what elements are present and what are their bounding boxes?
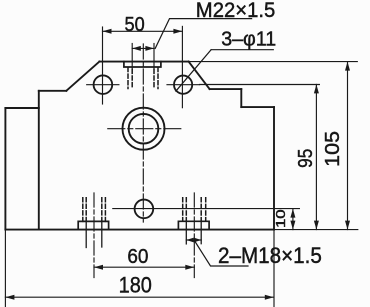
left hole vertical centerline / 50 extension xyxy=(102,27,104,104)
60 arrow right xyxy=(185,265,194,270)
right boss hidden line outer-left xyxy=(182,198,184,222)
95 dimension line xyxy=(315,84,317,229)
right chamfer xyxy=(189,62,210,90)
left M18 boss xyxy=(78,221,108,229)
bottom edge extension to dims xyxy=(274,229,358,231)
M22 thread hidden line left outer xyxy=(127,68,129,89)
left boss bore line left below xyxy=(85,221,87,247)
M18 dimension line xyxy=(186,239,201,241)
svg-text:10: 10 xyxy=(273,209,288,228)
left edge extension down to 180 dim xyxy=(4,230,6,307)
left hole horizontal centerline xyxy=(87,84,119,86)
50 dimension line xyxy=(103,30,183,32)
center bore outer circle xyxy=(123,108,165,150)
60 arrow left xyxy=(94,265,103,270)
svg-text:60: 60 xyxy=(127,245,148,268)
M22 leader line xyxy=(155,19,251,49)
right boss bore line left below xyxy=(185,221,187,244)
svg-text:50: 50 xyxy=(125,14,145,36)
body top edge xyxy=(99,61,188,63)
right boss hidden line inner-left xyxy=(185,198,187,222)
svg-text:105: 105 xyxy=(322,131,344,167)
50 arrow left xyxy=(103,29,112,34)
2-M18 leader line xyxy=(195,242,248,267)
left block left edge xyxy=(4,108,6,230)
10 arrow up xyxy=(290,209,295,218)
10 dimension line xyxy=(292,209,294,230)
left boss hidden line outer-right xyxy=(104,198,106,222)
body bottom edge xyxy=(5,229,273,231)
right hole phi11 xyxy=(174,76,192,94)
3-phi11 leader diagonal xyxy=(176,50,211,91)
left chamfer xyxy=(66,62,99,91)
M22 arrow left xyxy=(132,46,141,51)
svg-text:3–φ11: 3–φ11 xyxy=(221,27,276,50)
10 arrow down xyxy=(290,221,295,230)
left block top xyxy=(5,107,38,109)
M22 thread hidden line right inner xyxy=(153,69,155,88)
M18 arrow right xyxy=(194,238,201,243)
95 arrow down xyxy=(314,221,319,230)
svg-text:180: 180 xyxy=(119,273,152,298)
svg-text:2–M18×1.5: 2–M18×1.5 xyxy=(218,243,322,268)
right step vertical xyxy=(240,89,242,107)
105 dimension line xyxy=(347,62,349,230)
M22 thread hidden line left inner xyxy=(131,69,133,88)
right boss centerline / 60 extension xyxy=(193,193,195,278)
M22 extension line left xyxy=(131,44,133,70)
body right edge xyxy=(273,107,275,230)
M22 extension line right xyxy=(153,44,155,70)
M22 thread hidden line right outer xyxy=(157,68,159,89)
180 dimension line xyxy=(5,296,273,298)
svg-text:M22×1.5: M22×1.5 xyxy=(196,0,276,22)
right boss hidden line outer-right xyxy=(205,198,207,222)
main vertical centerline xyxy=(142,44,144,222)
shoulder extension to 95 dim xyxy=(200,84,320,86)
left boss bore line right below xyxy=(101,221,103,247)
center bore inner circle xyxy=(129,114,159,144)
small hole xyxy=(135,200,154,219)
M18 arrow left xyxy=(186,238,194,243)
M22 arrow right xyxy=(145,46,154,51)
right M18 boss xyxy=(178,221,209,229)
M22 dimension line xyxy=(132,47,154,49)
left boss hidden line outer-left xyxy=(82,198,84,222)
right boss bore line right below xyxy=(200,221,202,243)
right boss hidden line inner-right xyxy=(200,198,202,222)
60 dimension line xyxy=(94,266,194,268)
3-phi11 leader underline xyxy=(211,49,273,51)
105 arrow up xyxy=(345,62,350,71)
left boss centerline / 60 extension xyxy=(93,193,95,278)
right hole vertical centerline / 50 extension xyxy=(181,26,183,107)
M22 boss lip xyxy=(124,62,161,67)
right edge extension down to 180 dim xyxy=(273,230,275,307)
105 arrow down xyxy=(345,221,350,230)
right step horizontal xyxy=(241,106,274,108)
left shoulder xyxy=(39,90,67,92)
right hole horizontal centerline xyxy=(167,84,200,86)
center bore horizontal centerline xyxy=(108,128,182,130)
body left edge xyxy=(38,91,40,230)
top edge extension to 105 dim xyxy=(189,61,358,63)
left hole phi11 xyxy=(94,75,113,94)
left boss hidden line inner-left xyxy=(85,198,87,222)
svg-text:95: 95 xyxy=(295,149,317,168)
left boss hidden line inner-right xyxy=(101,198,103,222)
95 arrow up xyxy=(314,84,319,93)
180 arrow left xyxy=(5,295,14,300)
small hole horizontal line / 10 extension xyxy=(113,208,300,210)
50 arrow right xyxy=(173,29,182,34)
right shoulder xyxy=(210,88,242,90)
180 arrow right xyxy=(265,295,274,300)
